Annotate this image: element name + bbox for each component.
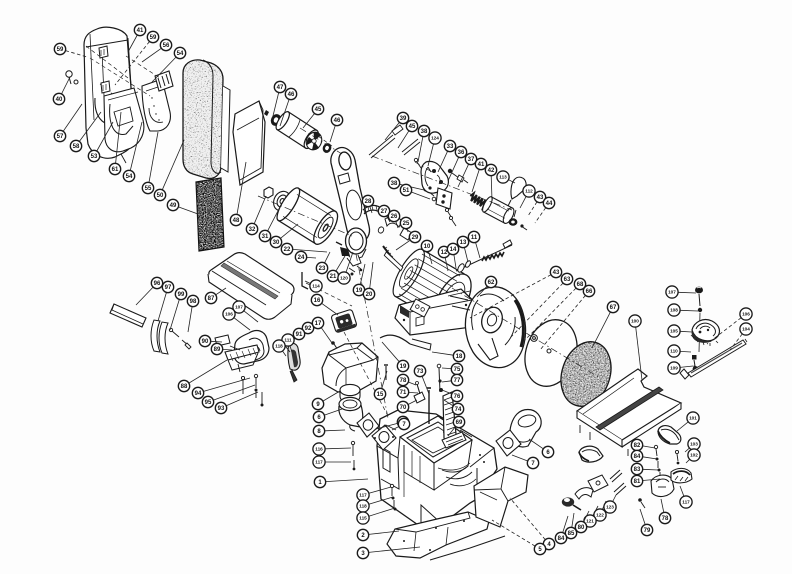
- balloon 70: [408, 400, 417, 405]
- balloon 106: [707, 318, 741, 344]
- balloon 107: [678, 291, 696, 294]
- terminal box: [410, 299, 430, 317]
- washers 110/109: [692, 355, 698, 371]
- clamp handle 111: [288, 343, 300, 370]
- balloon 103: [685, 448, 689, 452]
- balloon 9: [323, 391, 340, 401]
- balloon 82: [643, 446, 655, 448]
- balloon 109: [680, 366, 693, 367]
- balloon 38: [400, 184, 424, 190]
- balloon 12: [445, 258, 448, 271]
- balloon 7: [376, 423, 398, 429]
- balloon 61: [116, 112, 121, 163]
- balloon 48: [237, 162, 246, 214]
- motor body 10: [369, 235, 485, 333]
- shaft spring 11: [456, 245, 512, 271]
- balloon 117: [325, 461, 351, 463]
- balloon 54: [152, 57, 176, 82]
- balloon 43: [470, 275, 551, 318]
- balloon 15: [382, 371, 387, 389]
- balloon 69: [448, 427, 456, 437]
- right elbow 6: [510, 410, 541, 447]
- slats 97/98: [151, 320, 160, 352]
- balloon 39: [385, 122, 399, 140]
- balloon 54: [130, 122, 142, 171]
- balloon 43: [528, 202, 537, 216]
- balloon 38: [418, 137, 423, 162]
- balloon 20: [370, 262, 373, 288]
- bracket 121: [588, 475, 608, 492]
- funnel neck: [340, 384, 360, 403]
- screw 36/37: [448, 169, 468, 183]
- washer 47: [264, 110, 269, 116]
- balloon 29: [396, 240, 410, 250]
- balloon 7: [392, 427, 399, 431]
- balloon 47: [272, 93, 279, 121]
- balloon 110: [680, 350, 691, 353]
- balloon 27: [387, 216, 390, 222]
- balloon 89: [223, 348, 232, 351]
- balloon 4: [510, 498, 545, 540]
- screw 17: [334, 344, 338, 350]
- balloon 118: [283, 351, 287, 356]
- balloon 118: [369, 497, 393, 504]
- bracket 33: [421, 161, 448, 193]
- screw 107: [695, 287, 703, 306]
- balloon 59: [115, 42, 150, 86]
- balloon 36: [448, 157, 459, 181]
- plate 34: [436, 188, 452, 209]
- balloon 78: [661, 499, 664, 512]
- pin 13: [503, 240, 512, 248]
- switch 16: [331, 309, 357, 333]
- balloon 66: [540, 295, 585, 350]
- platen support 86: [225, 331, 269, 372]
- balloon 114: [305, 281, 310, 284]
- balloon 28: [370, 206, 372, 213]
- balloon 46: [330, 125, 335, 142]
- clip 56b: [101, 81, 110, 93]
- drum 30: [273, 185, 342, 248]
- balloon 84: [643, 457, 657, 459]
- balloon 63: [510, 283, 563, 338]
- post 69: [443, 392, 460, 446]
- backing plate 48: [233, 101, 265, 185]
- balloon 121: [593, 506, 598, 516]
- table 100: [577, 369, 681, 456]
- balloon 30: [280, 224, 298, 238]
- balloon 99: [170, 300, 179, 331]
- balloon 6: [529, 439, 543, 449]
- bearing 46: [269, 112, 283, 127]
- axis lines: [258, 128, 600, 418]
- washer 112 + screw 44: [509, 218, 518, 226]
- idler arm: [331, 148, 396, 276]
- clamp 78: [651, 475, 674, 496]
- balloon 124: [428, 144, 434, 166]
- balloon 59: [66, 51, 88, 57]
- balloon 97: [158, 293, 166, 322]
- balloon 67: [592, 312, 610, 348]
- nut 32: [264, 187, 273, 198]
- screw stack 75/77/76: [439, 368, 440, 392]
- fan guard 62: [450, 287, 526, 368]
- balloon 42: [490, 176, 493, 200]
- balloon 8: [325, 429, 345, 432]
- screws 93/94/95: [241, 374, 263, 406]
- nut 108: [698, 308, 702, 312]
- balloon 90: [211, 340, 222, 343]
- disc plate 66: [517, 313, 586, 393]
- balloon 123: [613, 495, 616, 502]
- balloon 1: [326, 479, 368, 482]
- balloon 5: [492, 520, 535, 546]
- bearing 31: [270, 189, 293, 214]
- elbow ring 6: [339, 397, 363, 431]
- balloon 88: [189, 360, 227, 383]
- balloon 17: [321, 328, 332, 343]
- balloon 87: [216, 288, 226, 295]
- balloon 115: [369, 508, 395, 516]
- balloon 120: [346, 252, 353, 272]
- pin 71/78: [417, 384, 420, 394]
- pivot screws 91/92: [283, 343, 290, 352]
- base housing 1: [377, 410, 497, 527]
- balloon 45: [398, 131, 409, 148]
- balloon 18: [432, 352, 453, 355]
- balloon 101: [677, 422, 688, 431]
- screws 124/38b: [414, 158, 431, 172]
- balloon 85: [572, 513, 574, 527]
- washer 46b: [321, 142, 333, 155]
- balloon 3: [369, 547, 420, 552]
- spring 41: [468, 193, 488, 209]
- sanding disc 67: [553, 335, 619, 413]
- balloon 56: [142, 48, 161, 62]
- shelf 87: [208, 253, 294, 320]
- balloon 75: [442, 367, 451, 370]
- balloon 83: [643, 468, 658, 471]
- balloon 14: [454, 255, 456, 268]
- arm 80: [575, 488, 593, 499]
- balloon 68: [522, 288, 576, 343]
- drum 45: [274, 110, 322, 151]
- balloon 79: [640, 509, 645, 525]
- balloon 57: [63, 104, 82, 131]
- balloon 49: [178, 207, 198, 214]
- knob 85: [562, 497, 581, 510]
- abrasive sheet 49: [196, 178, 224, 251]
- balloon 7: [512, 455, 528, 461]
- balloon 108: [680, 309, 698, 312]
- screws 103/102: [675, 450, 679, 464]
- balloon 71: [409, 391, 418, 394]
- pulley face 45: [303, 130, 324, 153]
- shoe 119: [671, 468, 692, 483]
- screws 99/98: [169, 328, 191, 349]
- balloon 53: [97, 122, 113, 151]
- balloon 16: [322, 303, 338, 315]
- belt segment 28: [363, 205, 382, 210]
- balloon 41: [472, 169, 479, 192]
- handle 70: [414, 392, 425, 403]
- balloon 23: [325, 252, 331, 263]
- balloon 78: [408, 382, 416, 385]
- screws 117/118/115: [390, 484, 396, 510]
- balloon 96: [136, 287, 153, 305]
- balloon 51: [411, 192, 430, 199]
- balloon 26: [396, 221, 398, 228]
- balloon 93: [226, 392, 258, 406]
- miter bar 104: [688, 340, 746, 377]
- balloon 37: [458, 164, 469, 187]
- balloon 107: [244, 311, 258, 322]
- side panel 5: [474, 467, 528, 527]
- balloon 76: [442, 390, 452, 394]
- balloon 25: [406, 229, 409, 232]
- balloon 31: [268, 207, 280, 231]
- balloon 102: [686, 459, 690, 463]
- screws 116/117 left: [351, 441, 355, 470]
- balloon 112: [520, 196, 526, 208]
- balloon 105: [680, 330, 692, 333]
- balloon 10: [429, 252, 433, 265]
- bottom plate 2: [387, 512, 489, 558]
- balloon 44: [535, 208, 546, 223]
- balloon 45: [303, 114, 315, 129]
- cylinder 42: [481, 195, 516, 225]
- balloon 117: [369, 487, 391, 493]
- screw 40: [66, 71, 78, 84]
- balloon 73: [422, 376, 429, 394]
- balloon 33: [438, 151, 448, 172]
- screws 82/84/83/81: [654, 445, 661, 481]
- flange 7c: [496, 430, 521, 456]
- balloon 106: [234, 318, 250, 330]
- stop bar 96: [110, 304, 146, 327]
- balloon 117: [680, 486, 684, 496]
- slide plate 53: [104, 88, 144, 152]
- balloon 2: [369, 531, 399, 534]
- balloon 98: [188, 307, 192, 332]
- flange 7a: [357, 413, 379, 437]
- balloon 6: [324, 409, 342, 415]
- platen 54/55: [142, 79, 170, 131]
- balloon 13: [464, 248, 468, 263]
- balloon 62: [477, 286, 487, 297]
- balloon 122: [602, 501, 606, 509]
- trunnion 90/89: [215, 335, 230, 346]
- flange 7b: [372, 425, 396, 450]
- balloon 104: [730, 334, 742, 350]
- belt inner 50b: [221, 86, 230, 172]
- balloon 91: [284, 337, 294, 345]
- balloon 19: [360, 264, 365, 284]
- balloon 81: [643, 479, 660, 481]
- balloon 92: [292, 332, 304, 341]
- balloon 22: [293, 249, 327, 252]
- rod 39: [369, 135, 395, 158]
- panel 4 edge: [430, 536, 505, 560]
- balloon 111: [290, 346, 292, 352]
- clip 41: [99, 46, 108, 58]
- balloon 84: [563, 516, 568, 533]
- bolt 73: [428, 390, 430, 424]
- dust hood 9: [322, 343, 378, 392]
- balloon 95: [213, 385, 255, 400]
- screws 38/51: [424, 187, 436, 201]
- balloon 11: [476, 243, 480, 259]
- tension pieces 26/27: [385, 217, 402, 227]
- balloon 113: [509, 180, 516, 183]
- sanding belt 50: [183, 60, 223, 179]
- rod 45c: [402, 139, 420, 155]
- washer 12/14: [456, 260, 471, 273]
- balloon 77: [442, 381, 451, 382]
- rod 18/19: [380, 335, 410, 344]
- hub 63: [531, 335, 538, 342]
- balloon 116: [325, 447, 351, 450]
- balloon 41: [128, 35, 137, 52]
- balloon 24: [307, 256, 316, 259]
- balloon 74: [444, 400, 453, 406]
- balloon 55: [149, 132, 158, 182]
- balloon 58: [79, 112, 101, 141]
- pin 15: [385, 366, 387, 380]
- handle 101: [658, 426, 681, 444]
- balloon 32: [254, 196, 266, 224]
- balloon 21: [336, 256, 345, 271]
- motor base 29: [395, 289, 479, 335]
- bracket 56: [155, 71, 173, 91]
- balloon 100: [636, 327, 642, 380]
- balloon 40: [62, 77, 71, 94]
- balloon 80: [584, 511, 590, 522]
- knob 113: [511, 177, 526, 199]
- hex key 114: [302, 272, 308, 289]
- balloon 19: [382, 342, 399, 362]
- balloon 46: [280, 99, 289, 126]
- balloon 94: [204, 378, 251, 391]
- belt arm cover 57: [84, 27, 136, 158]
- knob 105: [691, 320, 719, 346]
- screws 35: [445, 208, 456, 226]
- shell 6L: [579, 446, 603, 462]
- balloon 50: [162, 140, 184, 190]
